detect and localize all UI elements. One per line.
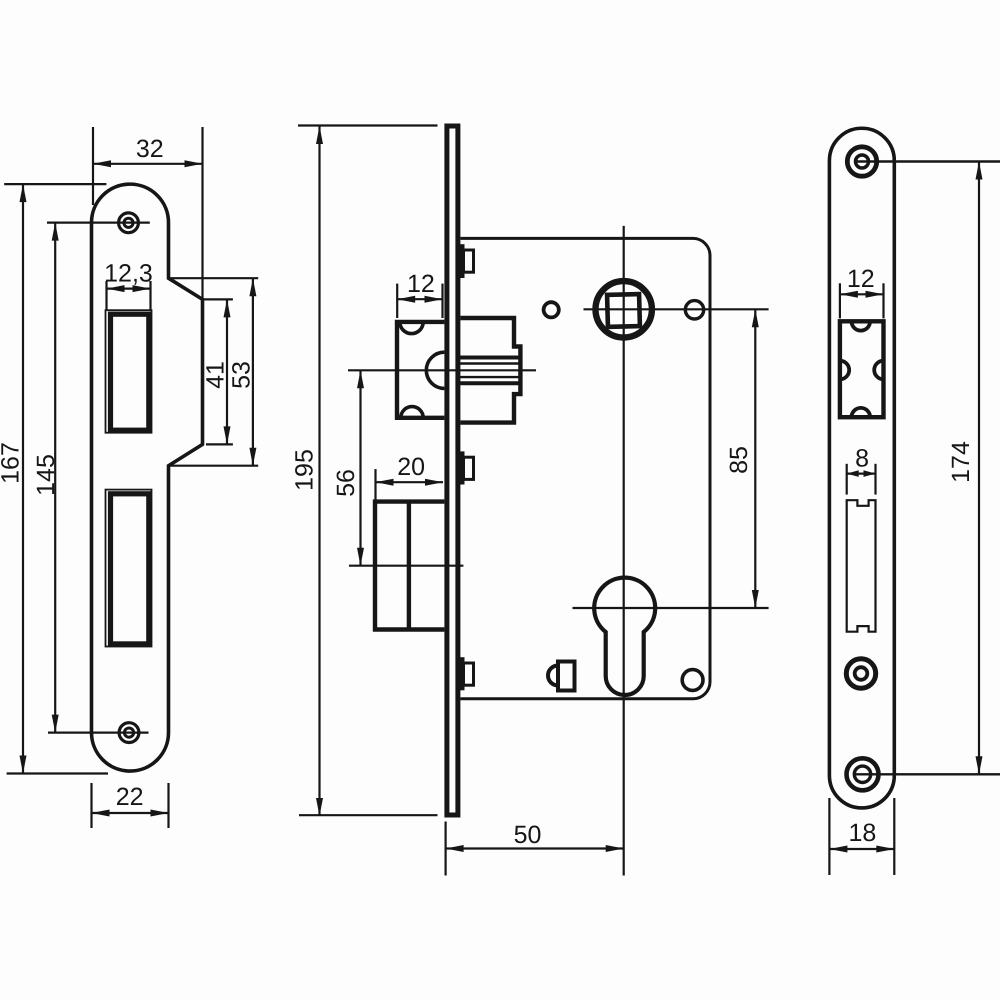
latch cutout bottom notch <box>852 408 871 417</box>
dim 50 line <box>446 847 624 849</box>
svg-text:56: 56 <box>332 469 360 497</box>
latch head middle notch <box>426 352 444 388</box>
dim 32 line <box>93 163 203 165</box>
dim 167 extension top <box>4 183 106 185</box>
latch head bottom notch <box>401 407 423 418</box>
dim 50 extension left <box>445 822 447 876</box>
latch housing mid line upper <box>458 356 520 360</box>
top screw centerline to 174 <box>857 160 1000 162</box>
latch tail line upper <box>457 362 520 364</box>
svg-text:145: 145 <box>32 454 60 496</box>
dim 8 extensions <box>846 464 848 495</box>
dim 32 extension right <box>201 127 203 299</box>
dim 20 extension <box>374 469 376 500</box>
spindle horizontal centerline <box>584 308 769 310</box>
dim 20 line <box>376 481 444 483</box>
dim 12,3 extensions <box>105 281 107 310</box>
svg-text:18: 18 <box>848 819 876 847</box>
spindle square <box>607 294 640 327</box>
dim 8 line <box>847 473 876 475</box>
faceplate plate outline <box>829 128 894 808</box>
deadbolt divider <box>407 502 411 630</box>
dim 53 extension top <box>169 277 259 279</box>
deadbolt centerline <box>349 565 463 567</box>
dim 32 extension left <box>92 127 94 205</box>
strike plate deadbolt cutout <box>106 490 152 647</box>
dim 18 extensions <box>828 798 830 875</box>
dim 12 mid extensions <box>396 284 398 318</box>
bottom screw centerline to 174 <box>855 773 1000 775</box>
latch tail line lower <box>457 376 520 378</box>
faceplate latch cutout <box>840 321 884 417</box>
dim 85 line <box>754 309 756 608</box>
dim 167 line <box>22 184 24 773</box>
latch housing outline upper <box>460 318 520 423</box>
latch centerline <box>348 369 536 371</box>
faceplate bar <box>447 126 458 815</box>
cam detail <box>558 662 575 691</box>
dim 145 line <box>54 223 56 733</box>
dim 53 line <box>252 278 254 466</box>
svg-text:32: 32 <box>136 135 164 163</box>
latch bolt head <box>397 322 444 418</box>
dim 12 mid line <box>397 298 442 300</box>
dim 12 right extensions <box>839 283 841 318</box>
strike plate latch cutout <box>106 310 152 433</box>
latch housing mid line lower <box>458 381 520 385</box>
hole right of spindle <box>685 301 703 319</box>
dim 167 extension bottom <box>7 772 108 774</box>
spindle vertical centerline <box>623 226 625 876</box>
cylinder centerline <box>573 607 769 609</box>
svg-text:167: 167 <box>0 442 25 484</box>
faceplate bottom screw hole <box>847 758 879 790</box>
latch head top notch <box>400 322 423 334</box>
dim 195 extension bottom <box>299 814 438 816</box>
svg-text:20: 20 <box>397 453 425 481</box>
svg-text:41: 41 <box>202 361 230 389</box>
dim 53 extension bottom <box>169 465 259 467</box>
faceplate middle screw hole <box>846 659 875 688</box>
faceplate cylinder cutout <box>847 500 876 632</box>
dim 22 line <box>92 812 169 814</box>
latch cutout left notch <box>840 361 849 380</box>
svg-text:195: 195 <box>291 449 319 491</box>
latch cutout top notch <box>852 321 871 330</box>
faceplate top screw hole <box>847 147 876 176</box>
lock body outline <box>460 238 710 698</box>
dim 41 extension top <box>203 298 233 300</box>
deadbolt head <box>375 502 444 630</box>
dim 195 line <box>318 126 320 816</box>
euro cylinder profile <box>594 578 655 695</box>
dim 18 line <box>829 848 894 850</box>
svg-text:12,3: 12,3 <box>104 260 153 288</box>
svg-text:50: 50 <box>514 821 542 849</box>
svg-text:174: 174 <box>947 441 975 483</box>
hole left of spindle <box>544 302 559 317</box>
dim 12,3 line <box>107 288 151 290</box>
dim 22 extensions <box>90 783 92 828</box>
latch cutout right notch <box>874 361 883 380</box>
fixing tab bottom <box>458 657 465 690</box>
dim 12 right line <box>840 293 884 295</box>
strike plate top screw hole <box>119 213 139 233</box>
dim 41 line <box>226 299 228 444</box>
spindle hub ring <box>596 281 652 337</box>
svg-text:12: 12 <box>407 270 435 298</box>
svg-text:53: 53 <box>227 361 255 389</box>
strike plate outline <box>92 184 203 771</box>
strike plate bottom screw hole <box>119 723 139 743</box>
fixing tab middle <box>458 451 465 484</box>
dim 41 extension bottom <box>206 443 233 445</box>
dim 56 line <box>359 370 361 565</box>
svg-text:85: 85 <box>725 446 753 474</box>
strike plate bottom screw centerline <box>48 731 149 733</box>
svg-text:12: 12 <box>847 265 875 293</box>
dim 174 line <box>978 162 980 775</box>
hole bottom right <box>682 670 703 691</box>
dim 195 extension top <box>298 124 438 126</box>
svg-text:22: 22 <box>116 783 144 811</box>
fixing tab top <box>458 244 465 278</box>
svg-text:8: 8 <box>855 445 869 473</box>
strike plate top screw centerline <box>47 222 150 224</box>
